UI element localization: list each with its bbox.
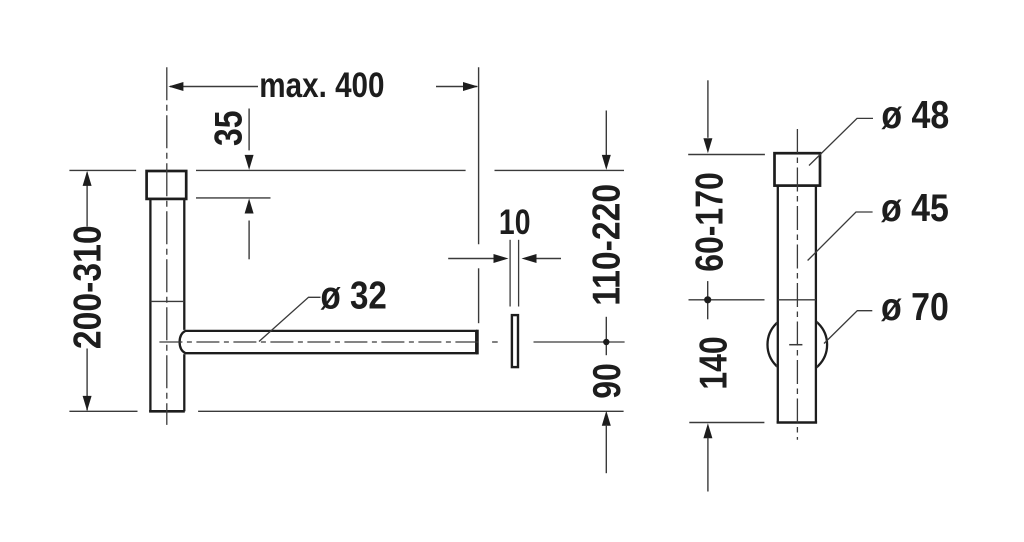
centerline dot segment right of pipe end xyxy=(492,341,498,343)
svg-text:90: 90 xyxy=(585,363,629,399)
svg-text:ø 32: ø 32 xyxy=(321,273,387,317)
arrowhead left (max.400) xyxy=(168,82,183,91)
arrowhead down (200-310 bottom) xyxy=(83,396,92,411)
arrowhead right (max.400) xyxy=(463,82,478,91)
centerline extension right of wall plate xyxy=(534,341,625,343)
vertical pipe body fill xyxy=(149,180,184,411)
node dot (left drawing) xyxy=(603,339,609,345)
node segment through dot (right drawing) xyxy=(707,281,709,319)
centerline vertical (right pipe axis) xyxy=(796,129,798,440)
horizontal pipe right end cap edge xyxy=(476,330,479,355)
svg-text:ø 48: ø 48 xyxy=(881,93,949,137)
pipe bottom edge (right drawing) xyxy=(777,421,818,424)
vertical pipe joint line xyxy=(150,300,184,302)
pipe left edge (right drawing) xyxy=(777,186,779,423)
wire: bottom reference line (left drawing) xyxy=(69,410,623,412)
dimension 35: lower arrow xyxy=(248,221,250,260)
pipe body fill (covers ball middle) xyxy=(777,186,818,423)
dimension 140: bottom arrow xyxy=(703,423,712,438)
dimension max. 400 line xyxy=(170,86,477,88)
vertical pipe right edge (lower) xyxy=(183,354,185,411)
dimension 200-310 line xyxy=(86,173,88,411)
leader for diameter 70 xyxy=(824,311,872,344)
dimension 10: right arrow xyxy=(536,258,562,260)
dimension 10: extension lines xyxy=(510,240,518,307)
leader for diameter 45 xyxy=(808,212,873,261)
inlet cap (right drawing) xyxy=(775,153,821,185)
extension line top (cap level) xyxy=(688,154,765,156)
dimension 10: left arrow xyxy=(448,258,494,260)
horizontal pipe body with round left bulge xyxy=(180,331,477,353)
pipe right edge (right drawing) xyxy=(815,186,817,423)
svg-text:ø 70: ø 70 xyxy=(881,285,949,329)
dimension 90: bottom arrow xyxy=(602,411,611,426)
inlet cap (left drawing) xyxy=(147,171,187,199)
leader for diameter 32 xyxy=(259,297,321,341)
centerline horizontal (trap arm axis) xyxy=(158,341,479,343)
arrowhead up (200-310 top) xyxy=(83,171,92,186)
ball center cross tick xyxy=(789,344,802,346)
vertical pipe bottom edge xyxy=(149,410,185,413)
svg-text:140: 140 xyxy=(692,336,736,389)
vertical pipe left edge xyxy=(149,199,151,411)
dimension 110-220: top arrow xyxy=(605,111,607,157)
pipe joint line (right drawing) xyxy=(778,299,816,301)
vertical pipe right edge (upper) xyxy=(183,199,185,330)
svg-text:35: 35 xyxy=(207,110,251,146)
dimension 60-170: top arrow xyxy=(707,80,709,138)
svg-text:ø 45: ø 45 xyxy=(881,186,949,230)
wall plate xyxy=(512,315,518,367)
extension line middle (ball center level) xyxy=(689,299,765,301)
wire: top wall reference line (left drawing) xyxy=(69,169,624,171)
svg-text:200-310: 200-310 xyxy=(65,225,109,349)
reference line under cap xyxy=(196,197,271,199)
extension line bottom (pipe end level) xyxy=(689,422,764,424)
svg-text:60-170: 60-170 xyxy=(688,172,732,272)
centerline vertical (left pipe axis) xyxy=(166,67,168,425)
ball joint circle (diameter 70) xyxy=(768,315,828,375)
svg-text:max. 400: max. 400 xyxy=(259,64,384,104)
dimension 35: upper arrow xyxy=(248,109,250,151)
extension line at pipe outlet x=478.6 xyxy=(478,67,480,323)
svg-text:10: 10 xyxy=(499,202,531,242)
svg-text:110-220: 110-220 xyxy=(584,184,628,306)
node dot (right drawing) xyxy=(704,296,711,303)
leader for diameter 48 xyxy=(809,118,873,165)
dimension node segment through dot xyxy=(605,317,607,355)
